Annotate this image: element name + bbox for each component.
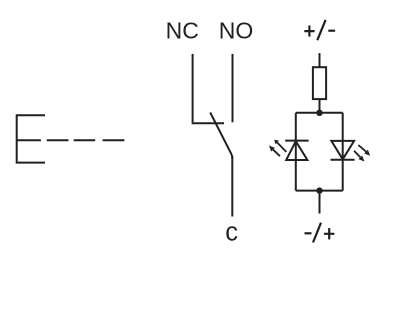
LED D2 emission arrows [354, 145, 370, 162]
dashed actuation link [47, 139, 125, 141]
LED D2 cathode bar [331, 159, 355, 161]
left branch wire [295, 113, 297, 191]
svg-text:c: c [225, 219, 238, 247]
wire node B to -/+ [319, 191, 321, 214]
NO terminal wire [232, 54, 234, 122]
resistor R [313, 67, 326, 99]
LED D1 triangle [286, 141, 307, 160]
bottom rail wire [296, 190, 343, 192]
top rail wire [296, 112, 343, 114]
magnet actuator symbol [17, 115, 45, 162]
NC fixed contact wire [192, 122, 224, 124]
LED D1 emission arrows [269, 140, 286, 157]
wire +/- to resistor [319, 53, 321, 67]
node A (top junction) [316, 110, 322, 116]
node B (bottom junction) [316, 187, 322, 193]
svg-text:NO: NO [219, 18, 254, 44]
NC terminal wire [192, 54, 194, 122]
label +/- (drawn) [304, 20, 335, 40]
LED D1 cathode bar [285, 140, 308, 142]
wire resistor to node A [319, 99, 321, 113]
label -/+ (drawn) [305, 223, 335, 243]
switch lever (changeover contact) [210, 113, 232, 159]
LED D2 triangle [331, 141, 354, 159]
right branch wire [342, 113, 344, 191]
common terminal wire [231, 156, 233, 217]
svg-text:NC: NC [166, 18, 199, 44]
